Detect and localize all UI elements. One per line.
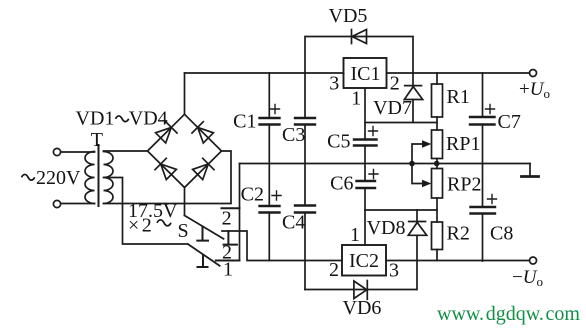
switch S pole contact 1	[197, 227, 208, 241]
wire secondary center tap	[104, 178, 188, 245]
potentiometer RP2	[432, 169, 443, 199]
capacitor C6	[357, 181, 376, 188]
potentiometer RP1	[432, 130, 443, 159]
svg-text:R2: R2	[447, 223, 470, 245]
svg-text:2: 2	[329, 259, 339, 281]
voltage regulator IC1	[344, 58, 387, 88]
svg-text:C2: C2	[241, 184, 264, 206]
svg-text:2: 2	[390, 73, 400, 95]
wire secondary bottom lead to bridge right vertex	[104, 151, 232, 204]
wire RP2 to adj line	[436, 198, 438, 222]
svg-text:C7: C7	[498, 111, 521, 133]
diode VD5	[352, 30, 367, 44]
voltage regulator IC2	[342, 245, 386, 276]
potentiometer RP2 wiper arrow	[412, 164, 424, 184]
svg-text:VD4: VD4	[129, 108, 168, 130]
svg-text:1: 1	[350, 224, 360, 246]
wire C3 column	[304, 73, 306, 290]
diode VD3 bottom-left	[155, 158, 176, 179]
switch contact bar 1	[216, 260, 240, 262]
output terminal -Uo	[530, 257, 537, 264]
wire pin1 to VD7 and R1 column	[365, 122, 437, 124]
svg-text:VD8: VD8	[367, 217, 406, 239]
diode VD6	[354, 281, 367, 300]
svg-text:×2: ×2	[128, 215, 154, 237]
svg-text:220V: 220V	[36, 167, 81, 189]
svg-text:www. dgdqw. com: www. dgdqw. com	[437, 303, 580, 325]
output terminal +Uo	[530, 70, 537, 77]
switch S blade 2	[188, 244, 220, 266]
svg-text:C4: C4	[282, 212, 305, 234]
resistor R1	[436, 73, 438, 130]
node dot wiper junction	[409, 161, 415, 167]
bridge rectifier VD1&#8764;VD4 diamond	[148, 114, 222, 187]
wire IC1 output rail	[387, 72, 530, 74]
wire positive rail to IC1 input	[185, 72, 344, 74]
diode VD1 top-left	[156, 122, 177, 143]
capacitor C1	[260, 118, 280, 125]
diode VD4 bottom-right	[193, 158, 214, 179]
switch contact bar 2b	[224, 231, 237, 245]
svg-text:VD7: VD7	[373, 97, 412, 119]
svg-text:2: 2	[222, 208, 232, 230]
wire secondary top lead to bridge left vertex	[104, 150, 148, 152]
svg-text:RP2: RP2	[447, 174, 481, 196]
svg-text:T: T	[91, 129, 103, 151]
wire VD6 branch	[305, 289, 417, 291]
diode VD7	[412, 73, 414, 123]
svg-text:3: 3	[389, 260, 399, 282]
transformer T primary winding	[85, 152, 95, 204]
diode VD8	[416, 210, 418, 290]
wire bridge top vertex to positive rail	[184, 73, 186, 114]
wire primary top lead	[61, 151, 95, 153]
svg-text:VD6: VD6	[343, 297, 382, 319]
potentiometer RP1 wiper arrow	[412, 144, 424, 164]
svg-text:VD1: VD1	[76, 108, 115, 130]
capacitor C5	[354, 140, 377, 146]
wire ground mid line	[240, 163, 531, 165]
switch S blade 1	[185, 216, 224, 239]
svg-text:VD5: VD5	[329, 5, 368, 27]
wire switch jog to IC2 pin2	[222, 231, 342, 261]
svg-text:C6: C6	[330, 173, 353, 195]
transformer core	[98, 145, 100, 206]
capacitor C7	[482, 73, 484, 164]
svg-text:C8: C8	[490, 223, 513, 245]
wire adj line C6 to RP2	[365, 209, 437, 211]
wire IC1 pin1 down	[364, 88, 366, 140]
svg-text:3: 3	[329, 73, 339, 95]
wire primary bottom lead	[61, 203, 95, 205]
svg-text:C1: C1	[233, 111, 256, 133]
switch contact bar 2a	[222, 207, 240, 209]
wire C1 column	[268, 73, 270, 261]
svg-text:S: S	[177, 220, 188, 242]
AC input terminal bottom	[53, 200, 60, 207]
svg-text:IC1: IC1	[351, 63, 381, 85]
capacitor C3	[295, 118, 315, 125]
svg-text:R1: R1	[447, 86, 470, 108]
label &#8764;220V	[22, 174, 35, 180]
wire VD5 branch	[305, 37, 413, 74]
switch S pole contact 2	[198, 255, 208, 267]
wire IC2 pin3 negative rail	[386, 260, 530, 262]
wire C6 to IC2 pin1	[364, 188, 366, 245]
svg-text:1: 1	[223, 259, 233, 281]
transformer T secondary winding	[104, 152, 114, 204]
capacitor C8	[482, 164, 484, 262]
AC input terminal top	[53, 148, 60, 155]
capacitor C2	[260, 206, 280, 213]
resistor R2	[432, 222, 443, 250]
wire bridge bottom to switch pole	[184, 188, 186, 216]
svg-text:C3: C3	[282, 124, 305, 146]
node dot RP1 RP2 junction	[434, 161, 440, 167]
wire C5 to C6	[364, 146, 366, 182]
svg-text:1: 1	[351, 88, 361, 110]
svg-text:IC2: IC2	[349, 250, 379, 272]
capacitor C4	[295, 206, 315, 213]
svg-text:RP1: RP1	[446, 133, 480, 155]
wire switch stack vertical	[239, 164, 241, 261]
diode VD2 top-right	[192, 122, 213, 143]
svg-text:C5: C5	[327, 131, 350, 153]
ground symbol	[529, 164, 531, 177]
